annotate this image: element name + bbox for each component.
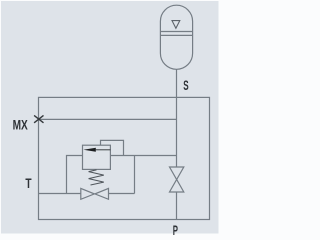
panel background [1,1,219,234]
accumulator gas triangle [172,21,180,29]
wire T line right segment [109,193,135,195]
wire S: accumulator down to isolating valve [176,69,178,167]
wire: drop from S branch to T line [134,156,136,194]
accumulator separator line 1 [160,31,192,33]
relief valve arrow head [83,148,95,152]
svg-text:MX: MX [13,117,29,133]
accumulator shell [160,5,192,69]
relief valve body [83,145,111,169]
pilot wire loop over valve [101,140,124,155]
wire: valve to S line [110,155,176,157]
wire T line left segment [39,193,81,195]
wire P: valve down to frame bottom [176,192,178,220]
MX test point X [34,115,43,122]
svg-text:S: S [183,78,188,93]
wire: valve left loop down to T line [67,156,83,194]
shut-off valve on T line (horizontal bowtie) [81,188,95,199]
accumulator separator line 2 [160,34,192,36]
wire MX [39,118,177,120]
relief valve arrow line [96,149,111,151]
svg-text:T: T [25,176,32,191]
block boundary frame [39,97,210,219]
svg-text:P: P [173,222,178,237]
isolating valve on S-P line (vertical hourglass) [170,167,184,180]
relief valve spring [89,170,104,185]
